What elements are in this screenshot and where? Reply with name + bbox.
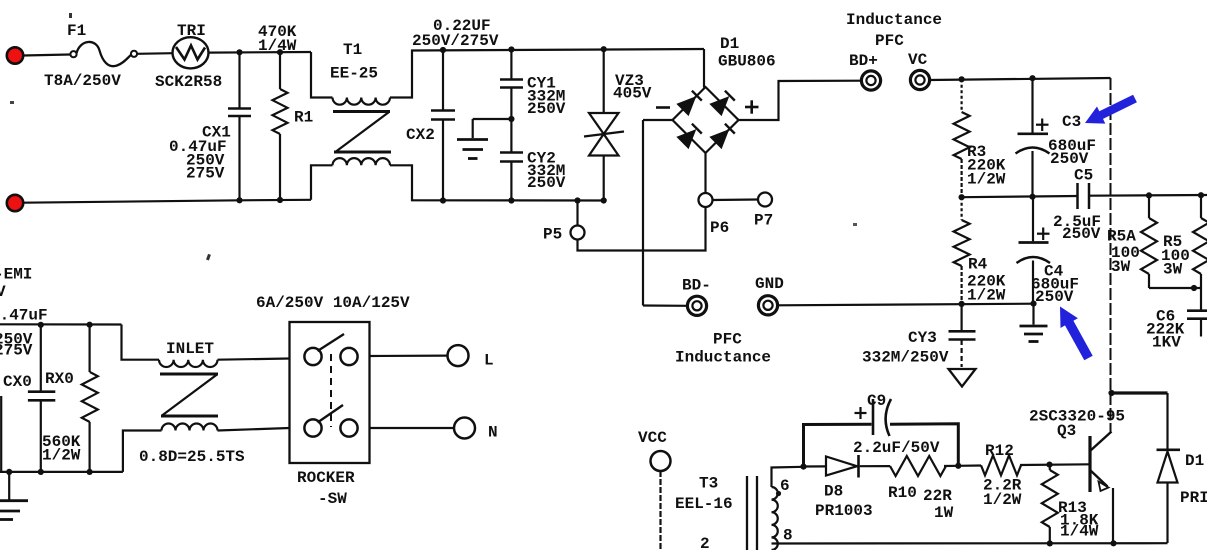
inductor T1 bottom winding (333, 158, 391, 165)
annotation arrow at C4 (blue) (1060, 307, 1093, 361)
svg-text:TRI: TRI (177, 22, 206, 40)
node junction (1198, 192, 1204, 198)
ground (chassis) below CY3 (949, 369, 976, 387)
wire (643, 119, 673, 121)
wire (218, 428, 290, 431)
svg-text:T1: T1 (343, 41, 362, 59)
svg-text:L: L (484, 352, 494, 370)
transistor Q3 emitter (1090, 470, 1108, 487)
svg-text:22R: 22R (923, 487, 952, 505)
svg-text:VC: VC (908, 51, 928, 69)
wire (578, 207, 706, 251)
wire (0, 471, 123, 473)
svg-text:EEL-16: EEL-16 (675, 495, 733, 513)
svg-text:CX2: CX2 (406, 126, 435, 144)
node junction (800, 464, 806, 470)
node junction (236, 49, 242, 55)
svg-text:P7: P7 (754, 212, 773, 230)
wire (860, 465, 890, 467)
wire (209, 51, 312, 54)
diode D8 (825, 465, 827, 467)
label plus (745, 106, 759, 109)
wire (123, 431, 162, 472)
wire (962, 196, 1078, 197)
terminal VC (910, 70, 929, 89)
node junction (1029, 194, 1035, 200)
svg-text:CY3: CY3 (908, 329, 937, 347)
svg-text:GND: GND (755, 275, 784, 293)
terminal VCC (651, 451, 671, 471)
wire (772, 467, 804, 487)
wire (370, 427, 455, 429)
node junction (508, 197, 514, 203)
wire (1166, 393, 1168, 449)
terminal L (448, 345, 469, 366)
transistor Q3 base bar (1088, 436, 1091, 492)
transformer T3 core (746, 476, 748, 550)
diode D1 upper-right (711, 98, 728, 115)
resistor R3 (960, 79, 962, 112)
wire (659, 471, 661, 550)
wire (772, 542, 1168, 544)
svg-text:1/4W: 1/4W (258, 37, 297, 55)
svg-text:1/2W: 1/2W (967, 287, 1006, 305)
transformer INLET core (160, 373, 218, 376)
node junction (277, 49, 283, 55)
svg-text:275V: 275V (186, 165, 225, 183)
svg-text:T3: T3 (699, 475, 718, 493)
diode D1 upper-left (678, 98, 695, 115)
wire (739, 81, 862, 120)
svg-text:-EMI: -EMI (0, 266, 32, 284)
capacitor CX0 (40, 325, 42, 391)
terminal P6 (699, 193, 713, 207)
node junction (574, 197, 580, 203)
ground (8, 472, 10, 500)
svg-text:PFC: PFC (875, 32, 904, 50)
svg-text:RX0: RX0 (45, 370, 74, 388)
wire (311, 52, 333, 98)
svg-text:GBU806: GBU806 (718, 53, 776, 71)
switch pole 1 (304, 348, 321, 365)
svg-text:VCC: VCC (638, 429, 667, 447)
svg-text:6A/250V 10A/125V: 6A/250V 10A/125V (256, 294, 410, 312)
ground below C4 (1032, 304, 1034, 325)
terminal P7 (758, 193, 772, 207)
svg-text:1W: 1W (934, 504, 954, 522)
node junction (601, 46, 607, 52)
svg-text:PFC: PFC (713, 331, 742, 349)
svg-text:Inductance: Inductance (846, 11, 942, 29)
inductor T1 top winding (333, 98, 391, 105)
wire (778, 304, 1034, 306)
svg-text:R10: R10 (888, 484, 917, 502)
capacitor C6 (1200, 288, 1202, 310)
svg-text:2.2uF/50V: 2.2uF/50V (853, 439, 940, 457)
svg-text:2: 2 (700, 535, 710, 550)
svg-text:V: V (0, 283, 6, 301)
wire (1020, 463, 1090, 466)
svg-text:6: 6 (780, 477, 790, 495)
svg-text:D1: D1 (720, 35, 739, 53)
wire (0, 396, 2, 472)
terminal BD+ (861, 71, 880, 90)
svg-text:332M/250V: 332M/250V (862, 349, 949, 367)
wire (944, 465, 958, 467)
svg-text:3W: 3W (1111, 258, 1131, 276)
svg-text:F1: F1 (67, 22, 86, 40)
switch ROCKER-SW box (290, 322, 370, 463)
svg-text:R1: R1 (294, 109, 313, 127)
label minus (656, 106, 670, 109)
transistor Q3 collector (1090, 432, 1112, 452)
svg-text:R12: R12 (985, 442, 1014, 460)
resistor R5 (1200, 195, 1202, 218)
capacitor C3 (electrolytic) (1031, 78, 1033, 132)
bridge rectifier D1 outline (673, 87, 739, 153)
node junction (277, 197, 283, 203)
wire (311, 165, 333, 200)
wire (1112, 391, 1168, 394)
capacitor CY3 (960, 304, 962, 330)
svg-text:R4: R4 (968, 256, 988, 274)
wire (137, 52, 173, 55)
node junction (440, 197, 446, 203)
svg-text:N: N (488, 424, 498, 442)
svg-text:SCK2R58: SCK2R58 (155, 73, 222, 91)
wire (1149, 287, 1201, 289)
wire (218, 359, 290, 360)
transformer T1 core (333, 110, 390, 113)
resistor R5A (1148, 195, 1150, 218)
svg-text:C5: C5 (1074, 167, 1093, 185)
svg-text:T8A/250V: T8A/250V (44, 72, 121, 90)
switch pole 2 (304, 419, 321, 436)
wire (23, 55, 70, 56)
node junction (1191, 285, 1197, 291)
node junction (1046, 462, 1052, 468)
svg-text:250V: 250V (1035, 288, 1074, 306)
svg-text:Q3: Q3 (1057, 422, 1076, 440)
resistor R1 (279, 52, 281, 89)
node junction (1029, 75, 1035, 81)
node junction (959, 76, 965, 82)
speck (69, 13, 72, 18)
inductor T3 primary winding (772, 487, 778, 550)
terminal N (454, 418, 475, 439)
svg-text:INLET: INLET (166, 340, 214, 358)
resistor RX0 (88, 325, 90, 372)
wire (390, 49, 704, 98)
svg-text:405V: 405V (613, 85, 652, 103)
wire (370, 355, 448, 358)
capacitor CX1 (238, 52, 240, 107)
svg-text:C3: C3 (1062, 113, 1081, 131)
resistor R4 (960, 197, 962, 220)
svg-text:D1: D1 (1185, 452, 1204, 470)
node junction (236, 197, 242, 203)
node junction (1047, 540, 1053, 546)
svg-text:CX0: CX0 (3, 373, 32, 391)
annotation arrow at C3 (blue) (1085, 95, 1137, 124)
resistor R13 (1049, 465, 1051, 470)
inductor INLET top winding (159, 360, 218, 367)
wire (1112, 488, 1114, 543)
speck (853, 223, 857, 226)
capacitor C5 (1076, 183, 1079, 209)
svg-text:P5: P5 (543, 226, 562, 244)
svg-text:250V/275V: 250V/275V (412, 32, 499, 50)
svg-text:3W: 3W (1163, 261, 1183, 279)
svg-text:0.8D=25.5TS: 0.8D=25.5TS (139, 448, 245, 466)
svg-text:1KV: 1KV (1152, 334, 1181, 352)
svg-text:250V: 250V (527, 174, 566, 192)
ground (473, 118, 512, 120)
svg-text:PR1003: PR1003 (815, 502, 873, 520)
node junction (1030, 301, 1036, 307)
thermistor TRI (173, 37, 209, 68)
node junction (1108, 390, 1114, 396)
capacitor CX2 (442, 50, 444, 110)
inductor INLET bottom winding (162, 424, 218, 431)
diode D1 (1158, 452, 1178, 483)
node junction (6, 469, 12, 475)
node junction (508, 116, 514, 122)
wire (643, 304, 687, 306)
svg-text:2SC3320-95: 2SC3320-95 (1029, 408, 1125, 426)
svg-text:275V: 275V (0, 342, 33, 360)
wire (390, 165, 604, 200)
svg-text:250V: 250V (1050, 150, 1089, 168)
wire (713, 198, 759, 201)
capacitor C9 (804, 424, 872, 466)
diode D1 lower-left (678, 131, 695, 148)
resistor R10 (890, 456, 946, 476)
wire (703, 49, 705, 88)
node polarity dot (776, 491, 781, 496)
node junction (601, 197, 607, 203)
terminal P5 (571, 226, 585, 240)
diode D1 cathode bar (1157, 448, 1181, 451)
node junction (87, 469, 93, 475)
svg-text:250V: 250V (1062, 225, 1101, 243)
node junction (1146, 192, 1152, 198)
svg-text:EE-25: EE-25 (330, 65, 378, 83)
switch link (dashed) (330, 354, 332, 427)
capacitor C4 (electrolytic) (1032, 197, 1034, 242)
node junction (87, 322, 93, 328)
wire (1166, 483, 1168, 544)
svg-text:1/2W: 1/2W (967, 171, 1006, 189)
svg-text:250V: 250V (527, 100, 566, 118)
svg-text:C9: C9 (867, 392, 886, 410)
node junction (38, 469, 44, 475)
svg-text:8: 8 (783, 527, 793, 545)
svg-text:1/4W: 1/4W (1060, 523, 1099, 541)
wire (576, 201, 578, 226)
svg-text:ROCKER: ROCKER (297, 469, 355, 487)
varistor VZ3 (603, 49, 605, 113)
resistor R12 (981, 455, 1021, 475)
label plus (855, 412, 867, 414)
svg-text:1/2W: 1/2W (983, 491, 1022, 509)
wire (0, 323, 122, 325)
node junction (955, 463, 961, 469)
diode D1 lower-right (711, 131, 728, 148)
node AC neutral input terminal (red) (7, 195, 23, 211)
node junction (508, 46, 514, 52)
wire (122, 325, 160, 360)
terminal BD- (687, 296, 706, 315)
node junction (440, 47, 446, 53)
speck (10, 101, 14, 104)
wire (1089, 194, 1207, 197)
capacitor CY2 (500, 151, 523, 154)
wire (804, 465, 827, 467)
svg-text:PRI: PRI (1180, 489, 1207, 507)
svg-text:D8: D8 (824, 483, 843, 501)
node junction (959, 194, 965, 200)
terminal GND (758, 296, 777, 315)
svg-text:P6: P6 (710, 219, 729, 237)
wire (958, 464, 981, 466)
svg-text:BD-: BD- (682, 277, 711, 295)
svg-text:-SW: -SW (318, 490, 347, 508)
wire (23, 200, 311, 203)
wire (704, 153, 706, 193)
svg-text:BD+: BD+ (849, 52, 878, 70)
svg-text:Inductance: Inductance (675, 349, 771, 367)
wire (930, 78, 1111, 80)
node AC line input terminal (red) (7, 47, 23, 63)
node junction (959, 301, 965, 307)
speck (206, 254, 211, 261)
fuse F1 (70, 51, 76, 57)
svg-text:1/2W: 1/2W (42, 447, 81, 465)
capacitor CY1 (510, 50, 512, 79)
node junction (1110, 540, 1116, 546)
wire HV bus (1110, 78, 1112, 433)
node junction (38, 322, 44, 328)
